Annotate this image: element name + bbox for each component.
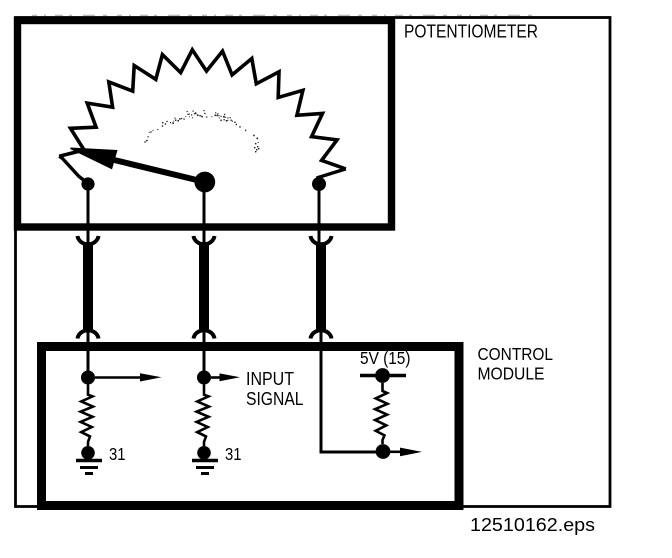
node 1 arrow	[95, 373, 162, 381]
wire 3 down and right	[321, 347, 376, 452]
svg-text:31: 31	[225, 444, 242, 464]
wire into node 1	[87, 347, 90, 377]
connector wire 1	[78, 230, 99, 347]
wiper arm	[108, 159, 205, 183]
svg-text:MODULE: MODULE	[478, 364, 545, 384]
node 1 dot	[81, 371, 95, 385]
ground 1	[76, 461, 102, 474]
terminal C dot	[312, 177, 326, 191]
resistive track zigzag arc	[59, 50, 346, 169]
node 1 lower dot	[81, 446, 95, 460]
svg-text:31: 31	[109, 444, 126, 464]
svg-text:CONTROL: CONTROL	[478, 344, 554, 364]
resistor R3	[375, 383, 387, 444]
connector wire 2	[194, 230, 215, 347]
connector wire 3	[311, 230, 332, 347]
track right tail to terminal C	[318, 169, 346, 184]
terminal B wire	[203, 192, 206, 230]
svg-text:POTENTIOMETER: POTENTIOMETER	[404, 22, 538, 42]
resistor R1	[81, 385, 93, 447]
outer enclosure box	[16, 18, 611, 507]
svg-text:INPUT: INPUT	[246, 369, 294, 389]
5V supply rail	[360, 374, 406, 377]
scan smudge above top border	[32, 14, 540, 16]
track left tail to terminal A	[59, 156, 88, 183]
terminal C wire	[318, 191, 321, 230]
control module box	[42, 347, 460, 506]
wiper arrowhead	[71, 148, 117, 168]
node 2 arrow	[211, 373, 240, 381]
svg-text:12510162.eps: 12510162.eps	[470, 514, 595, 535]
terminal A dot	[81, 177, 94, 190]
wire into node 2	[203, 347, 206, 377]
terminal A wire	[87, 190, 90, 230]
output node dot	[376, 444, 391, 459]
output arrow	[390, 448, 422, 457]
5V rail dot	[375, 368, 390, 383]
svg-text:5V (15): 5V (15)	[360, 348, 411, 368]
node 2 lower dot	[197, 446, 211, 460]
ground 2	[192, 461, 218, 474]
wiper travel dotted arc	[144, 141, 145, 142]
wiper pivot dot	[194, 172, 215, 193]
svg-text:SIGNAL: SIGNAL	[246, 389, 304, 409]
potentiometer box	[18, 21, 392, 228]
node 2 dot	[197, 371, 211, 385]
resistor R2	[197, 385, 209, 447]
